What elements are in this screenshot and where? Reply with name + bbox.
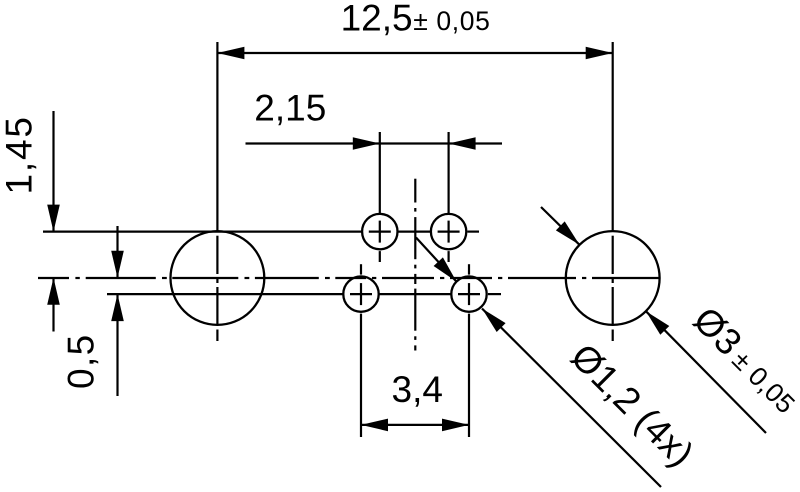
svg-text:0,5: 0,5 [61,333,102,389]
svg-text:12,5: 12,5 [341,0,413,39]
svg-text:2,15: 2,15 [254,88,326,129]
svg-text:3,4: 3,4 [392,369,443,410]
svg-text:± 0,05: ± 0,05 [413,6,490,36]
svg-text:1,45: 1,45 [0,115,40,194]
